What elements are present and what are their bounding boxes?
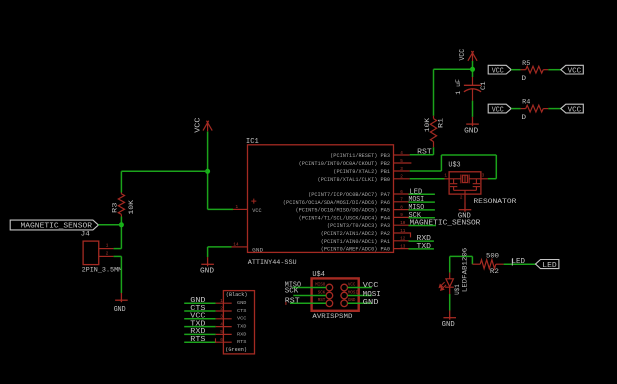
svg-text:IC1: IC1 <box>246 138 259 146</box>
svg-text:2: 2 <box>460 195 463 200</box>
svg-text:VCC: VCC <box>568 106 582 114</box>
svg-text:(Black): (Black) <box>226 291 248 298</box>
svg-text:GND: GND <box>363 299 379 307</box>
svg-text:3: 3 <box>400 167 403 172</box>
svg-text:1: 1 <box>106 244 109 249</box>
resistor R1 bottom lead <box>433 142 435 148</box>
svg-text:10K: 10K <box>424 117 432 132</box>
wire net RXD <box>409 240 434 242</box>
resistor R1 body 10K <box>430 119 436 142</box>
svg-text:(PCINT3/T0/ADC3) PA3: (PCINT3/T0/ADC3) PA3 <box>327 223 390 229</box>
wire FTDI CTS <box>184 310 216 312</box>
svg-text:2: 2 <box>220 307 223 312</box>
resistor R5 body <box>526 66 544 73</box>
ground below LED <box>443 311 456 320</box>
svg-text:RST: RST <box>417 149 432 157</box>
svg-text:MAGNETIC_SENSOR: MAGNETIC_SENSOR <box>410 220 482 228</box>
resonator U$3 body <box>449 172 481 194</box>
pin 12 stub right <box>394 240 410 242</box>
pin 8 stub right <box>394 209 410 211</box>
svg-text:(PCINT5/OC1B/MISO/DO/ADC5) PA5: (PCINT5/OC1B/MISO/DO/ADC5) PA5 <box>296 208 391 214</box>
svg-text:LED: LED <box>410 188 423 196</box>
pad circle right MOSI <box>341 292 348 299</box>
header U$4 body <box>312 278 359 310</box>
wire down to ground <box>120 256 122 293</box>
svg-text:8: 8 <box>400 205 403 210</box>
ground below C1 <box>466 117 479 126</box>
pin 11 stub right <box>394 232 411 234</box>
wire net TXD <box>409 248 434 250</box>
junction VCC/R3 node <box>205 169 210 174</box>
label tick RST <box>285 302 287 305</box>
LED U$1 emission arrows <box>439 282 446 290</box>
svg-text:RXD: RXD <box>417 235 432 243</box>
wire R5 to right flag <box>548 69 561 71</box>
svg-text:(PCINT11/RESET) PB3: (PCINT11/RESET) PB3 <box>330 153 390 159</box>
wire FTDI VCC <box>184 318 216 320</box>
FTDI pin 1 stub <box>216 302 232 304</box>
FTDI pin 5 stub <box>216 333 232 335</box>
svg-text:2: 2 <box>106 251 109 256</box>
wire FTDI GND <box>184 302 216 304</box>
pin 6 stub right <box>394 193 410 195</box>
wire VCC down to IC pin1 <box>207 132 209 210</box>
resistor R5 right lead <box>543 69 548 71</box>
pin 13 stub right <box>394 248 410 250</box>
connector 2PIN_3.5MM body <box>83 241 99 265</box>
wire down to R2 <box>471 256 473 264</box>
svg-text:TXD: TXD <box>237 324 247 330</box>
svg-text:GND: GND <box>190 297 205 305</box>
svg-text:CTS: CTS <box>190 305 205 313</box>
wire net LED <box>409 193 435 195</box>
svg-text:1 uF: 1 uF <box>455 79 463 95</box>
svg-text:MOSI: MOSI <box>409 196 425 204</box>
svg-text:(PCINT0/AREF/ADC0) PA0: (PCINT0/AREF/ADC0) PA0 <box>321 247 390 253</box>
svg-text:GND: GND <box>442 321 455 329</box>
pin 4 stub right <box>394 154 410 156</box>
wire GND pad out <box>348 302 372 304</box>
VCC flag right row1 <box>561 65 584 75</box>
svg-text:R3: R3 <box>112 203 120 214</box>
svg-text:500: 500 <box>486 253 499 261</box>
wire RST net <box>410 154 434 156</box>
label tick LED <box>511 259 513 266</box>
svg-text:1: 1 <box>220 299 223 304</box>
ground below connector <box>115 293 128 302</box>
FTDI pin 6 stub <box>216 341 232 343</box>
resonator pin 3 <box>481 178 488 180</box>
capacitor C1 bottom lead <box>472 90 474 101</box>
svg-text:VCC: VCC <box>195 118 203 133</box>
svg-text:GND: GND <box>252 247 264 254</box>
svg-text:6: 6 <box>220 338 223 343</box>
resistor R5 left lead <box>521 69 526 71</box>
svg-text:(PCINT10/INT0/OC0A/CKOUT) PB2: (PCINT10/INT0/OC0A/CKOUT) PB2 <box>299 161 390 167</box>
wire VCC stem down to junction/C1 <box>472 61 474 77</box>
svg-text:TXD: TXD <box>417 243 432 251</box>
plus mark at VCC pin <box>251 199 256 204</box>
wire flag to R5 <box>511 69 520 71</box>
resistor R3 bottom lead <box>120 214 122 216</box>
wire C1 to GND <box>472 101 474 117</box>
wire pin1 <box>114 248 122 250</box>
pin 14 GND stub <box>232 246 248 248</box>
svg-text:AVRISPSMD: AVRISPSMD <box>312 313 352 320</box>
wire XTAL2 <box>410 170 442 172</box>
wire LED anode up <box>449 256 451 272</box>
capacitor C1 curved plate <box>464 89 481 92</box>
svg-text:LEDFAB1206: LEDFAB1206 <box>462 248 470 292</box>
wire RST to pad <box>290 302 326 304</box>
svg-text:2: 2 <box>400 175 403 180</box>
svg-text:(PCINT2/AIN1/ADC2) PA2: (PCINT2/AIN1/ADC2) PA2 <box>321 231 390 237</box>
svg-text:TXD: TXD <box>190 320 205 328</box>
pin 3 stub right <box>394 170 410 172</box>
svg-text:C1: C1 <box>480 81 488 90</box>
wire MISO to pad <box>293 287 327 289</box>
wire across to R2 <box>450 255 473 257</box>
svg-text:6: 6 <box>400 190 403 195</box>
resonator internal symbol <box>449 175 481 195</box>
connector pin 1 <box>99 248 114 250</box>
svg-text:10K: 10K <box>128 199 136 215</box>
wire junction to R3 top <box>121 170 207 172</box>
wire XTAL2 up <box>440 155 442 171</box>
svg-text:(PCINT1/AIN0/ADC1) PA1: (PCINT1/AIN0/ADC1) PA1 <box>321 239 390 245</box>
wire XTAL1 to resonator pin1 <box>410 178 445 180</box>
wire SCK to pad <box>293 295 326 297</box>
wire LED cathode to ground <box>449 294 451 311</box>
wire VCC junction to R1 top <box>434 68 473 70</box>
resistor R4 right lead <box>543 108 548 110</box>
svg-text:(Green): (Green) <box>225 346 247 353</box>
svg-text:LED: LED <box>542 262 556 270</box>
ground below resonator <box>459 203 472 212</box>
wire pin2 to ground <box>114 255 122 257</box>
svg-text:R5: R5 <box>522 60 530 68</box>
resonator pin 1 <box>445 178 450 180</box>
svg-text:RESONATOR: RESONATOR <box>473 198 516 205</box>
svg-text:SCK: SCK <box>285 288 299 296</box>
capacitor C1 top lead <box>472 77 474 85</box>
wire to resonator pin3 <box>488 178 497 180</box>
resistor R3 top lead <box>120 193 122 194</box>
wire FTDI RXD <box>184 333 216 335</box>
ground below IC pin14 <box>201 257 214 266</box>
svg-text:U$3: U$3 <box>448 161 460 169</box>
svg-text:ATTINY44-SSU: ATTINY44-SSU <box>248 259 297 266</box>
wire junction down to R3 <box>120 171 122 192</box>
pin 1 VCC stub <box>233 208 248 210</box>
svg-text:R1: R1 <box>438 118 446 128</box>
svg-text:J4: J4 <box>81 231 90 239</box>
resistor R3 body 10K <box>118 194 124 215</box>
svg-text:4: 4 <box>220 322 223 327</box>
wire IC pin14 GND <box>208 246 232 248</box>
flag MAGNETIC_SENSOR <box>10 220 98 231</box>
svg-text:VCC: VCC <box>568 67 582 75</box>
svg-text:RTS: RTS <box>237 339 247 345</box>
svg-text:LED: LED <box>512 258 526 266</box>
svg-text:GND: GND <box>464 127 478 135</box>
connector pin 2 <box>99 255 114 257</box>
svg-text:7: 7 <box>400 198 403 203</box>
svg-text:CTS: CTS <box>237 308 247 314</box>
wire net MISO <box>409 209 435 211</box>
VCC flag left row1 <box>488 65 511 75</box>
VCC flag left row2 <box>488 104 511 114</box>
resistor R1 top lead <box>433 116 435 119</box>
VCC supply symbol top <box>468 51 477 62</box>
unconnected stub tick pin 11 <box>410 232 412 237</box>
wire VCC pad out <box>348 287 372 289</box>
pad circle right VCC <box>341 284 348 291</box>
VCC supply symbol left <box>203 121 212 132</box>
wire net SCK <box>409 217 435 219</box>
wire R2 to LED flag <box>504 263 536 265</box>
svg-text:GND: GND <box>237 300 247 306</box>
wire FTDI TXD <box>184 326 216 328</box>
svg-text:D: D <box>521 114 526 122</box>
FTDI pin 3 stub <box>216 318 232 320</box>
svg-text:12: 12 <box>400 237 406 242</box>
pad circle right GND <box>341 300 348 307</box>
svg-text:11: 11 <box>400 229 406 234</box>
wire flag to junction <box>98 224 121 226</box>
pin 2 stub right <box>394 178 410 180</box>
svg-text:RTS: RTS <box>190 336 205 344</box>
FTDI pin 4 stub <box>216 326 232 328</box>
pad circle left MISO <box>326 284 333 291</box>
junction MAGNETIC_SENSOR node <box>119 222 124 227</box>
resistor R2 body 500 <box>480 260 496 269</box>
svg-text:RST: RST <box>285 297 300 305</box>
wire R1 bottom to RST net <box>433 147 435 155</box>
svg-text:GND: GND <box>200 267 214 275</box>
svg-text:VCC: VCC <box>237 316 247 322</box>
LED U$1 diode symbol <box>445 279 454 294</box>
resistor R4 body <box>526 105 544 112</box>
capacitor C1 straight plate <box>464 84 481 86</box>
svg-text:RXD: RXD <box>237 331 247 337</box>
svg-text:VCC: VCC <box>190 313 205 321</box>
wire XTAL2 across <box>441 154 496 156</box>
svg-text:VCC: VCC <box>363 282 379 290</box>
resistor R2 left lead <box>472 263 480 265</box>
svg-text:5: 5 <box>220 330 223 335</box>
svg-text:3: 3 <box>482 174 485 179</box>
svg-text:5: 5 <box>400 159 403 164</box>
wire net MAGNETIC_SENSOR <box>409 225 437 227</box>
pin 10 stub right <box>394 224 410 226</box>
wire net MOSI <box>409 201 435 203</box>
svg-text:SCK: SCK <box>409 212 422 220</box>
wire MOSI pad out <box>348 295 372 297</box>
wire down to R1 <box>433 69 435 116</box>
svg-text:14: 14 <box>233 242 239 247</box>
svg-text:(PCINT7/ICP/OC0B/ADC7) PA7: (PCINT7/ICP/OC0B/ADC7) PA7 <box>308 192 390 198</box>
wire flag to R4 <box>511 108 520 110</box>
wire pin14 down to ground <box>207 247 209 257</box>
wire R4 to right flag <box>548 108 561 110</box>
FTDI pin 2 stub <box>216 310 232 312</box>
svg-text:3: 3 <box>220 315 223 320</box>
flag LED <box>536 260 559 271</box>
VCC flag right row2 <box>561 104 584 114</box>
svg-text:R4: R4 <box>522 99 530 107</box>
svg-text:(PCINT8/XTAL1/CLKI) PB0: (PCINT8/XTAL1/CLKI) PB0 <box>318 177 390 183</box>
svg-text:RXD: RXD <box>190 328 205 336</box>
svg-text:4: 4 <box>400 151 403 156</box>
pin 9 stub right <box>394 216 410 218</box>
svg-text:MAGNETIC_SENSOR: MAGNETIC_SENSOR <box>21 223 93 231</box>
connector FTDI body <box>223 291 254 354</box>
pad circle left SCK <box>326 292 333 299</box>
wire XTAL2 down <box>495 155 497 179</box>
wire into IC pin1 <box>208 208 233 210</box>
svg-text:1: 1 <box>444 174 447 179</box>
svg-text:2PIN_3.5MM: 2PIN_3.5MM <box>82 267 123 274</box>
pad circle left RST <box>326 300 333 307</box>
svg-text:9: 9 <box>400 213 403 218</box>
svg-text:MISO: MISO <box>409 204 425 212</box>
svg-text:(PCINT6/OC1A/SDA/MOSI/DI/ADC6): (PCINT6/OC1A/SDA/MOSI/DI/ADC6) PA6 <box>283 200 390 206</box>
wire R3 bottom through junction to connector pin1 <box>120 217 122 249</box>
label tick RTS <box>215 338 217 342</box>
svg-text:R2: R2 <box>490 268 499 276</box>
op-amp <box>248 145 394 253</box>
wire FTDI RTS <box>184 341 216 343</box>
svg-text:MOSI: MOSI <box>363 291 381 299</box>
resonator pin 2 down <box>464 194 466 202</box>
svg-text:(PCINT9/XTAL2) PB1: (PCINT9/XTAL2) PB1 <box>333 169 390 175</box>
junction VCC node <box>470 67 475 72</box>
svg-text:VCC: VCC <box>252 207 262 214</box>
LED U$1 anode lead <box>449 273 451 279</box>
svg-text:13: 13 <box>400 244 406 249</box>
svg-text:1: 1 <box>236 205 239 210</box>
svg-text:VCC: VCC <box>459 49 467 61</box>
svg-text:D: D <box>521 75 526 83</box>
pin 5 stub right <box>394 162 412 164</box>
svg-text:VCC: VCC <box>492 106 504 114</box>
resistor R4 left lead <box>521 108 526 110</box>
svg-text:10: 10 <box>400 221 406 226</box>
pin 7 stub right <box>394 201 410 203</box>
svg-text:VCC: VCC <box>492 67 504 75</box>
svg-text:GND: GND <box>114 306 126 314</box>
svg-text:(PCINT4/T1/SCL/USCK/ADC4) PA4: (PCINT4/T1/SCL/USCK/ADC4) PA4 <box>299 215 390 221</box>
resistor R2 right lead <box>496 263 504 265</box>
